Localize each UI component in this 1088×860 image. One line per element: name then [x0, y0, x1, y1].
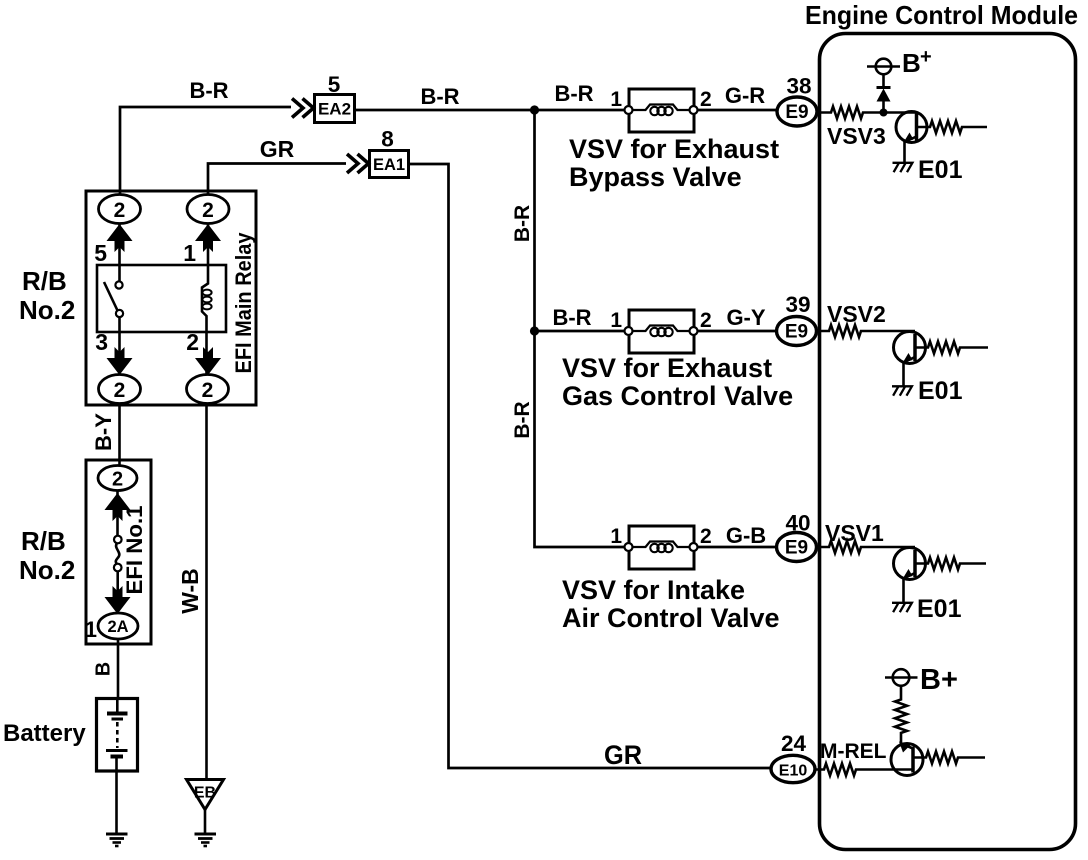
svg-text:VSV for Intake: VSV for Intake — [562, 575, 745, 605]
svg-text:EFI Main Relay: EFI Main Relay — [231, 232, 256, 373]
svg-text:VSV for Exhaust: VSV for Exhaust — [562, 353, 772, 383]
svg-text:E9: E9 — [785, 322, 808, 343]
resistor collector row3 — [915, 558, 986, 570]
battery — [97, 699, 138, 772]
svg-text:8: 8 — [381, 127, 394, 152]
svg-text:No.2: No.2 — [19, 295, 75, 325]
wire B-Y — [118, 404, 121, 467]
svg-text:E9: E9 — [785, 102, 808, 123]
svg-text:E9: E9 — [785, 538, 808, 559]
svg-text:B-R: B-R — [554, 81, 593, 106]
wire B-R from relay pin 5 to EA2 — [120, 107, 291, 195]
transistor Q1 — [896, 112, 927, 143]
svg-text:+: + — [920, 46, 932, 68]
svg-text:E10: E10 — [779, 763, 808, 780]
svg-text:EA1: EA1 — [373, 156, 405, 174]
svg-text:G-B: G-B — [726, 523, 766, 548]
wire pin5 column — [118, 224, 121, 375]
svg-text:G-Y: G-Y — [726, 305, 765, 330]
diode D1 — [882, 102, 885, 113]
B+ terminal row1 — [876, 59, 892, 75]
transistor Q3 — [894, 548, 926, 580]
resistor collector row1 — [917, 121, 988, 133]
svg-text:2A: 2A — [107, 618, 128, 636]
transistor Q4 — [891, 744, 923, 776]
svg-text:B-R: B-R — [511, 401, 534, 438]
wire G-R — [698, 109, 778, 112]
node junction diode row1 — [880, 109, 888, 117]
VSV solenoid box row1 — [629, 89, 694, 132]
pin circle 2 (top right) — [187, 195, 229, 224]
svg-text:39: 39 — [785, 292, 810, 317]
connector E10 — [771, 755, 815, 782]
svg-text:EB: EB — [194, 785, 216, 802]
svg-text:VSV3: VSV3 — [827, 123, 886, 149]
arrow down (left) — [107, 347, 133, 375]
wire G-Y — [698, 330, 777, 333]
svg-text:R/B: R/B — [21, 526, 66, 556]
svg-text:B-R: B-R — [189, 78, 228, 103]
node junction B-R row1 — [530, 105, 539, 114]
svg-text:Gas Control Valve: Gas Control Valve — [562, 381, 793, 411]
connector E9 row2 — [777, 317, 817, 346]
svg-text:VSV for Exhaust: VSV for Exhaust — [569, 134, 779, 164]
pin circle 2 (bottom left) — [99, 375, 141, 404]
svg-text:E01: E01 — [918, 156, 963, 184]
ground connector EB — [187, 780, 224, 810]
arrow down (right) — [195, 347, 221, 375]
ground E01 row3 — [892, 603, 912, 612]
terminal circles row2 — [625, 327, 633, 335]
svg-text:E01: E01 — [917, 595, 962, 623]
svg-text:Engine Control Module: Engine Control Module — [805, 0, 1078, 30]
svg-text:B: B — [93, 662, 115, 676]
wire into ECM row4 + resistor — [815, 764, 913, 776]
connector EA2 — [315, 95, 355, 123]
fuse EFI No.1 — [114, 536, 122, 544]
resistor pull-up row4 — [895, 685, 907, 744]
svg-text:VSV2: VSV2 — [827, 301, 886, 327]
svg-text:EFI No.1: EFI No.1 — [122, 506, 147, 595]
connector EA1 — [370, 151, 409, 178]
svg-text:GR: GR — [604, 740, 642, 770]
relay coil — [202, 224, 208, 375]
terminal circles row3 — [625, 543, 633, 551]
svg-text:2: 2 — [700, 309, 712, 332]
svg-text:G-R: G-R — [725, 83, 765, 108]
connector arrows EA1 — [347, 154, 369, 173]
svg-text:38: 38 — [786, 74, 811, 99]
svg-text:2: 2 — [202, 199, 214, 222]
wire into ECM row3 + resistor — [816, 541, 916, 553]
svg-text:1: 1 — [183, 240, 196, 266]
svg-text:M-REL: M-REL — [820, 740, 887, 763]
svg-text:B: B — [902, 48, 921, 78]
wire into ECM row2 + resistor — [816, 325, 916, 337]
ground (EB) — [195, 833, 217, 836]
svg-text:1: 1 — [610, 309, 622, 332]
arrow up (left) — [107, 224, 133, 252]
svg-text:1: 1 — [610, 525, 622, 548]
wire into ECM row1 + resistor — [816, 107, 917, 119]
wire in fuse column — [116, 491, 119, 615]
solenoid coil row1 — [633, 105, 690, 111]
wire B-R from EA2 to VSV box — [355, 109, 629, 112]
svg-text:5: 5 — [328, 72, 341, 97]
svg-text:GR: GR — [260, 136, 295, 162]
wire battery to ground — [115, 771, 118, 834]
B+ terminal row4 — [893, 669, 910, 686]
ground (battery) — [106, 833, 128, 836]
ground E01 row2 — [892, 386, 912, 395]
svg-text:E01: E01 — [918, 377, 963, 405]
svg-text:W-B: W-B — [177, 568, 203, 614]
svg-text:2: 2 — [112, 469, 123, 491]
svg-text:5: 5 — [94, 240, 107, 266]
resistor collector row4 — [913, 752, 985, 764]
solenoid coil row3 — [633, 542, 690, 548]
wire B-R row2 — [535, 330, 629, 333]
svg-text:3: 3 — [95, 329, 108, 355]
pin circle 2 (top left) — [99, 195, 141, 224]
svg-text:No.2: No.2 — [19, 555, 75, 585]
svg-text:1: 1 — [610, 88, 622, 111]
wire B to battery — [117, 639, 120, 699]
terminal circles row1 — [625, 106, 633, 114]
wire W-B — [205, 404, 208, 781]
svg-text:B+: B+ — [920, 664, 958, 696]
svg-text:B-R: B-R — [420, 84, 459, 109]
svg-text:2: 2 — [202, 379, 214, 402]
arrow down (fuse) — [105, 586, 131, 614]
svg-text:Air Control Valve: Air Control Valve — [562, 603, 780, 633]
VSV solenoid box row3 — [629, 526, 694, 569]
svg-text:B-R: B-R — [552, 305, 591, 330]
VSV solenoid box row2 — [629, 310, 694, 353]
svg-text:Bypass Valve: Bypass Valve — [569, 162, 742, 192]
relay box R/B No.2 — [86, 191, 256, 405]
svg-text:VSV1: VSV1 — [825, 520, 884, 546]
relay switch — [115, 281, 122, 288]
svg-text:2: 2 — [114, 199, 126, 222]
pin circle 2A — [98, 613, 138, 639]
Engine Control Module box — [820, 34, 1076, 850]
svg-text:2: 2 — [700, 525, 712, 548]
wire GR from EA1 down to E10 — [409, 164, 772, 768]
svg-text:2: 2 — [700, 88, 712, 111]
transistor Q2 — [894, 332, 926, 364]
ground E01 row1 — [893, 163, 913, 172]
svg-text:B-R: B-R — [511, 205, 534, 242]
svg-text:2: 2 — [186, 329, 199, 355]
svg-text:2: 2 — [114, 379, 126, 402]
svg-text:EA2: EA2 — [318, 100, 351, 119]
wire EB to ground — [204, 810, 207, 835]
relay inner box — [97, 265, 226, 332]
svg-text:R/B: R/B — [22, 266, 67, 296]
solenoid coil row2 — [633, 326, 690, 332]
connector arrows EA2 — [292, 99, 314, 118]
arrow up (fuse) — [105, 493, 131, 521]
wire GR from relay pin 1 to EA1 — [208, 164, 346, 196]
pin circle 2 (fuse top) — [98, 466, 137, 491]
connector E9 row1 — [777, 97, 817, 126]
svg-text:B-Y: B-Y — [91, 413, 116, 451]
wire G-B — [698, 546, 777, 549]
svg-text:Battery: Battery — [3, 720, 86, 747]
resistor collector row2 — [915, 342, 988, 354]
svg-text:24: 24 — [781, 731, 807, 756]
node junction B-R row2 — [530, 326, 539, 335]
pin circle 2 (bottom right) — [187, 375, 229, 404]
connector E9 row3 — [777, 533, 817, 562]
wire B-R bus vertical — [535, 110, 629, 547]
svg-text:1: 1 — [85, 617, 97, 642]
fuse box R/B No.2 (EFI No.1) — [86, 460, 151, 644]
arrow up (right) — [195, 224, 221, 252]
